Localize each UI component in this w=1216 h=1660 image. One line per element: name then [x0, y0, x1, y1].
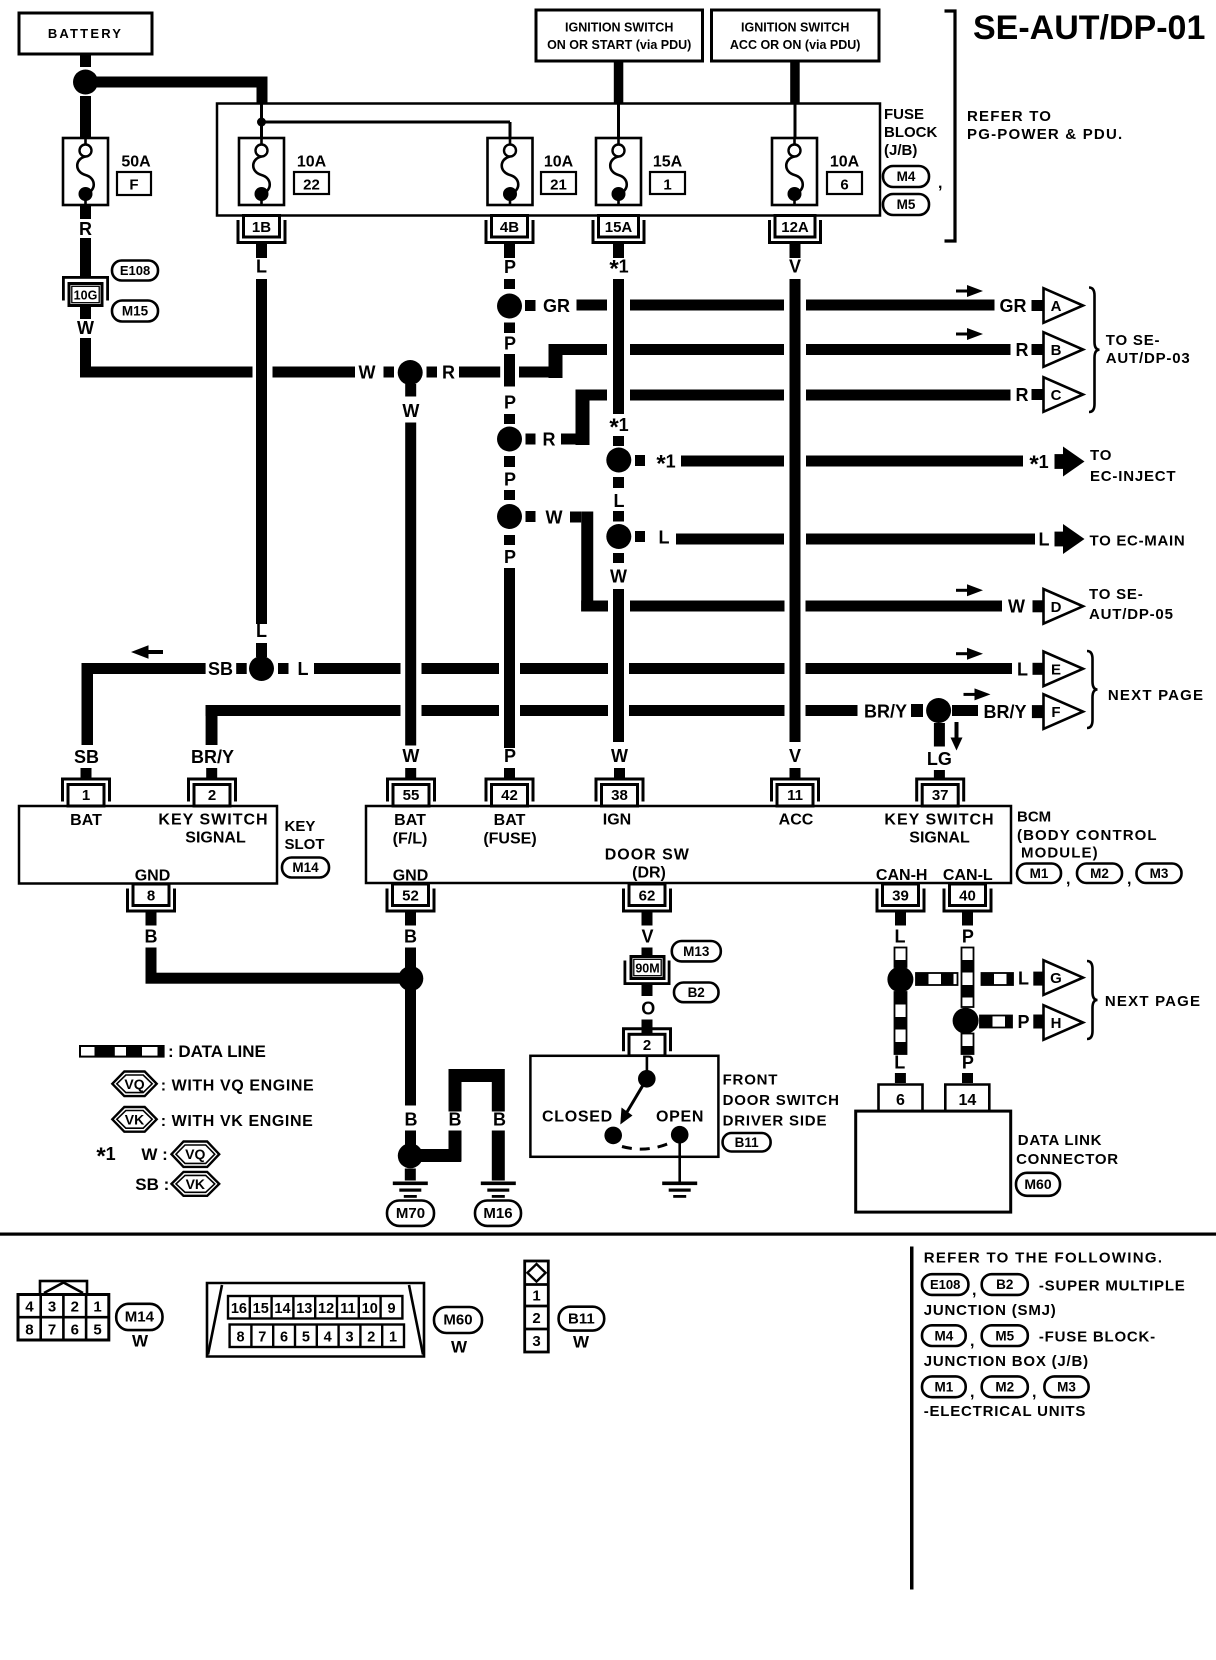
- svg-text:(BODY CONTROL: (BODY CONTROL: [1017, 827, 1158, 844]
- svg-text:GR: GR: [543, 296, 570, 316]
- svg-text:A: A: [1051, 298, 1062, 315]
- svg-text:10: 10: [362, 1301, 378, 1317]
- svg-text:VK: VK: [125, 1111, 144, 1127]
- junction dot W/R: [398, 360, 423, 385]
- legend data line sample: [80, 1046, 164, 1057]
- wire V from 12A: [790, 243, 801, 259]
- svg-text:P: P: [504, 470, 516, 490]
- svg-text:B: B: [404, 927, 417, 947]
- ignition switch ON/START box: [536, 10, 703, 61]
- svg-text:M1: M1: [935, 1380, 954, 1395]
- arrow row E right: [956, 648, 983, 660]
- wire fuse F to 10G, R: [80, 205, 91, 220]
- svg-text:10A: 10A: [544, 154, 574, 171]
- svg-text:IGNITION SWITCH: IGNITION SWITCH: [565, 21, 673, 35]
- svg-text:M4: M4: [897, 169, 916, 184]
- svg-text:W: W: [132, 1332, 149, 1351]
- svg-text:11: 11: [787, 787, 803, 804]
- brace to SE-AUT/DP-03: [1089, 288, 1100, 413]
- svg-text:FUSE: FUSE: [884, 106, 924, 123]
- svg-text:13: 13: [296, 1301, 312, 1317]
- svg-text:REFER TO: REFER TO: [967, 108, 1052, 125]
- svg-text:SE-AUT/DP-01: SE-AUT/DP-01: [973, 9, 1205, 47]
- svg-text:P: P: [1017, 1012, 1029, 1032]
- wire R to row B corner: [459, 367, 500, 378]
- connector pin 1: [63, 779, 110, 806]
- svg-text:CAN-H: CAN-H: [876, 867, 928, 884]
- svg-text:DOOR SWITCH: DOOR SWITCH: [723, 1092, 840, 1109]
- connector pin 42: [486, 779, 533, 806]
- svg-text:: WITH VQ ENGINE: : WITH VQ ENGINE: [161, 1078, 315, 1095]
- svg-text:IGNITION SWITCH: IGNITION SWITCH: [741, 21, 849, 35]
- svg-text:REFER TO THE FOLLOWING.: REFER TO THE FOLLOWING.: [924, 1250, 1164, 1267]
- svg-text:KEY SWITCH: KEY SWITCH: [158, 812, 268, 829]
- svg-text:W: W: [402, 401, 419, 421]
- svg-text:P: P: [962, 1053, 974, 1073]
- svg-text:OPEN: OPEN: [656, 1109, 704, 1126]
- svg-text:,: ,: [1127, 871, 1131, 888]
- svg-text:V: V: [789, 746, 801, 766]
- wire B loop to M16: [418, 1149, 461, 1162]
- svg-text:R: R: [79, 219, 92, 239]
- svg-text:CONNECTOR: CONNECTOR: [1016, 1151, 1119, 1168]
- arrow row A: [956, 285, 983, 297]
- connector id M2 note: [982, 1376, 1028, 1397]
- svg-text:M13: M13: [683, 944, 710, 959]
- svg-text:P: P: [962, 927, 974, 947]
- connector id M2: [1077, 864, 1122, 884]
- data line CAN-H lower: [895, 992, 907, 1054]
- data line CAN-L lower: [962, 1034, 974, 1055]
- svg-text:SB: SB: [208, 659, 233, 679]
- svg-text:BAT: BAT: [494, 812, 526, 829]
- svg-text:5: 5: [302, 1330, 310, 1346]
- row EC-MAIN wire: [635, 531, 645, 542]
- svg-text:LG: LG: [927, 749, 952, 769]
- svg-text:4: 4: [324, 1330, 332, 1346]
- data link connector box: [856, 1111, 1011, 1212]
- fuse F 50A: [63, 138, 108, 205]
- wire open contact to ground: [678, 1141, 681, 1182]
- svg-text:F: F: [1051, 704, 1060, 721]
- connector pin 2 door switch: [624, 1029, 671, 1056]
- svg-text:55: 55: [403, 787, 420, 804]
- separator line: [0, 1233, 1216, 1236]
- connector id B2 note: [982, 1274, 1028, 1295]
- svg-text:M3: M3: [1150, 866, 1169, 881]
- svg-text:D: D: [1051, 599, 1062, 616]
- svg-text:B: B: [449, 1110, 462, 1130]
- arrow down LG: [951, 722, 963, 751]
- data line row G: [916, 973, 958, 985]
- connector 1B: [238, 216, 285, 243]
- arrow row D: [956, 584, 983, 596]
- svg-text:-ELECTRICAL UNITS: -ELECTRICAL UNITS: [924, 1403, 1086, 1420]
- svg-text:M3: M3: [1057, 1380, 1076, 1395]
- connector id E108 note: [922, 1274, 968, 1295]
- connector id M4 note: [922, 1325, 966, 1346]
- svg-text:DATA LINK: DATA LINK: [1018, 1132, 1102, 1149]
- ground M16: [481, 1182, 516, 1198]
- svg-text:37: 37: [932, 787, 949, 804]
- svg-text:W :: W :: [141, 1145, 167, 1164]
- connector pin 52 GND: [387, 884, 434, 911]
- arrow to EC-INJECT: [1055, 454, 1069, 469]
- offpage triangle G: [1044, 960, 1084, 995]
- svg-text:8: 8: [25, 1322, 33, 1339]
- svg-text:3: 3: [532, 1333, 540, 1350]
- junction dot BR/Y: [926, 698, 951, 723]
- battery: [19, 13, 152, 54]
- svg-text:PG-POWER & PDU.: PG-POWER & PDU.: [967, 126, 1123, 143]
- svg-text:3: 3: [48, 1299, 56, 1316]
- svg-text:4: 4: [25, 1299, 34, 1316]
- svg-text:10G: 10G: [74, 289, 98, 303]
- svg-text:R: R: [1016, 385, 1029, 405]
- junction dot B ground bus: [398, 966, 423, 991]
- offpage triangle B: [1044, 332, 1084, 367]
- connector id M15: [112, 301, 158, 322]
- svg-text:,: ,: [970, 1333, 974, 1350]
- wire W junction to BCM pin 55: [405, 384, 416, 397]
- wire P from 4B: [504, 243, 515, 259]
- door switch closed contact: [604, 1127, 622, 1145]
- svg-text:M2: M2: [1090, 866, 1109, 881]
- svg-text:8: 8: [236, 1330, 244, 1346]
- svg-text:6: 6: [840, 177, 848, 194]
- svg-text:BAT: BAT: [394, 812, 426, 829]
- svg-text:1: 1: [663, 177, 671, 194]
- svg-text:B: B: [145, 927, 158, 947]
- connector id M70: [387, 1201, 434, 1226]
- svg-text:L: L: [256, 257, 267, 277]
- connector 14 DLC: [945, 1085, 989, 1112]
- svg-text:L: L: [894, 1053, 905, 1073]
- connector id M60 bottom: [434, 1307, 482, 1333]
- BCM box: [366, 806, 1011, 883]
- svg-text:M15: M15: [122, 304, 149, 319]
- svg-text:B: B: [405, 1110, 418, 1130]
- connector id M1: [1017, 864, 1061, 884]
- svg-text:SB: SB: [74, 747, 99, 767]
- svg-text:B2: B2: [688, 985, 705, 1000]
- svg-text:SIGNAL: SIGNAL: [185, 830, 246, 847]
- junction dot P row D: [497, 504, 522, 529]
- row D W wire: [526, 511, 536, 522]
- connector 15A: [593, 216, 644, 243]
- svg-text:6: 6: [71, 1322, 79, 1339]
- svg-text:O: O: [641, 999, 655, 1019]
- wire ignition ACC/ON to fuse block: [790, 61, 800, 104]
- fuse 1 15A: [596, 138, 641, 205]
- connector id M3 note: [1044, 1376, 1088, 1397]
- door switch common: [646, 1056, 649, 1074]
- svg-text:ACC OR ON (via PDU): ACC OR ON (via PDU): [730, 38, 861, 52]
- svg-text:2: 2: [532, 1310, 540, 1327]
- wire battery stub: [80, 54, 91, 67]
- svg-text:M2: M2: [995, 1380, 1014, 1395]
- svg-text:6: 6: [280, 1330, 288, 1346]
- svg-text:W: W: [573, 1333, 590, 1352]
- junction dot CAN-L: [953, 1008, 979, 1034]
- fuse 6 10A: [772, 138, 817, 205]
- svg-text:M70: M70: [396, 1205, 425, 1222]
- svg-text:M4: M4: [935, 1328, 954, 1343]
- svg-text:L: L: [256, 621, 267, 641]
- svg-text:DOOR SW: DOOR SW: [605, 847, 690, 864]
- svg-text:14: 14: [274, 1301, 290, 1317]
- svg-text:12A: 12A: [781, 219, 809, 236]
- svg-text:AUT/DP-03: AUT/DP-03: [1106, 350, 1191, 367]
- svg-text:,: ,: [1032, 1384, 1036, 1401]
- svg-text:6: 6: [896, 1092, 905, 1109]
- svg-text:VQ: VQ: [124, 1076, 144, 1092]
- svg-text:W: W: [1008, 597, 1025, 617]
- front door switch box: [530, 1056, 718, 1157]
- door switch open contact: [671, 1126, 689, 1144]
- svg-text:W: W: [77, 318, 94, 338]
- svg-text:*1: *1: [609, 256, 628, 283]
- ground door switch: [662, 1182, 697, 1198]
- svg-text:,: ,: [970, 1384, 974, 1401]
- svg-text:R: R: [543, 430, 556, 450]
- svg-text:W: W: [610, 567, 627, 587]
- svg-text:38: 38: [611, 787, 628, 804]
- svg-text:-FUSE BLOCK-: -FUSE BLOCK-: [1039, 1329, 1156, 1346]
- svg-text:W: W: [546, 508, 563, 528]
- connector id E108: [112, 261, 158, 281]
- wire V from BCM 62: [642, 911, 653, 926]
- legend VK engine: [112, 1107, 156, 1132]
- arrow row F: [964, 688, 991, 700]
- svg-text:50A: 50A: [121, 154, 151, 171]
- connector 6 DLC: [879, 1085, 923, 1112]
- svg-text:E108: E108: [930, 1277, 960, 1292]
- offpage triangle A: [1044, 288, 1084, 323]
- svg-text:P: P: [504, 334, 516, 354]
- svg-text:NEXT PAGE: NEXT PAGE: [1108, 687, 1204, 704]
- svg-text:15: 15: [253, 1301, 269, 1317]
- connector id M13: [672, 941, 721, 961]
- svg-text:W: W: [451, 1338, 468, 1357]
- svg-text:L: L: [895, 927, 906, 947]
- svg-text:SIGNAL: SIGNAL: [909, 830, 970, 847]
- svg-text:2: 2: [643, 1037, 651, 1054]
- connector pin 2: [189, 779, 236, 806]
- svg-text:(F/L): (F/L): [393, 831, 428, 848]
- arrow row E left: [131, 645, 163, 658]
- junction dot CAN-H: [887, 966, 913, 992]
- svg-text:NEXT PAGE: NEXT PAGE: [1105, 993, 1201, 1010]
- svg-text:*1: *1: [1029, 451, 1048, 478]
- svg-text:7: 7: [258, 1330, 266, 1346]
- svg-text:VQ: VQ: [185, 1146, 205, 1162]
- svg-text:MODULE): MODULE): [1021, 845, 1099, 862]
- svg-text:P: P: [504, 547, 516, 567]
- connector 90M SMJ: [624, 982, 671, 985]
- svg-text:10A: 10A: [297, 154, 327, 171]
- ground M70: [393, 1182, 428, 1198]
- connector pin 62 DOOR SW: [624, 884, 671, 911]
- svg-text:90M: 90M: [635, 962, 659, 976]
- arrow to EC-MAIN: [1055, 532, 1069, 547]
- svg-text:4B: 4B: [500, 219, 519, 236]
- wire SB to key slot pin 1: [82, 663, 94, 745]
- svg-text:M16: M16: [483, 1205, 512, 1222]
- svg-text:2: 2: [367, 1330, 375, 1346]
- svg-text:L: L: [1039, 530, 1050, 550]
- row B R wire: [563, 344, 608, 355]
- connector 4B: [486, 216, 533, 243]
- connector pin 38: [596, 779, 643, 806]
- svg-text:: DATA LINE: : DATA LINE: [168, 1042, 266, 1061]
- svg-text:H: H: [1051, 1015, 1062, 1032]
- svg-text:11: 11: [340, 1301, 355, 1317]
- svg-text:(J/B): (J/B): [884, 142, 917, 159]
- svg-text:TO: TO: [1090, 447, 1112, 464]
- junction dot SB/L: [249, 656, 274, 681]
- connector id M60: [1016, 1173, 1060, 1196]
- connector pin 55: [388, 779, 435, 806]
- svg-text:M1: M1: [1030, 866, 1049, 881]
- offpage triangle H: [1044, 1005, 1084, 1040]
- svg-text:L: L: [298, 659, 309, 679]
- svg-text:1: 1: [389, 1330, 397, 1346]
- connector pin 40 CAN-L: [944, 884, 991, 911]
- svg-text:JUNCTION (SMJ): JUNCTION (SMJ): [924, 1302, 1057, 1319]
- data line CAN-H upper: [895, 948, 907, 968]
- junction dot P row A: [497, 294, 522, 319]
- svg-text:BAT: BAT: [70, 812, 102, 829]
- svg-text:(DR): (DR): [632, 865, 666, 882]
- svg-text:8: 8: [147, 888, 155, 905]
- svg-text:B2: B2: [996, 1277, 1013, 1292]
- svg-text:M14: M14: [292, 860, 319, 875]
- connector view M60: [207, 1283, 424, 1357]
- svg-text:15A: 15A: [653, 154, 683, 171]
- key slot box: [19, 806, 277, 884]
- svg-text:62: 62: [639, 888, 656, 905]
- svg-text:*1: *1: [96, 1143, 115, 1170]
- row F BR/Y wire: [206, 705, 218, 745]
- junction dot P row C: [497, 427, 522, 452]
- svg-text:SLOT: SLOT: [285, 836, 325, 853]
- svg-text:: WITH VK ENGINE: : WITH VK ENGINE: [161, 1113, 314, 1130]
- svg-text:SB :: SB :: [135, 1175, 169, 1194]
- svg-text:14: 14: [959, 1092, 977, 1109]
- svg-text:L: L: [659, 528, 670, 548]
- connector id B2: [674, 983, 719, 1003]
- row EC-INJECT wire: [635, 455, 645, 466]
- svg-text:V: V: [789, 257, 801, 277]
- svg-text:M60: M60: [1024, 1176, 1051, 1192]
- connector view M14: [18, 1281, 109, 1340]
- svg-text:,: ,: [1066, 871, 1070, 888]
- connector pin 37: [917, 779, 964, 806]
- svg-text:CAN-L: CAN-L: [943, 867, 993, 884]
- junction dot *1 EC-INJECT: [606, 448, 631, 473]
- wire LG to BCM pin 37: [934, 723, 945, 747]
- offpage triangle F: [1044, 694, 1084, 729]
- connector pin 8 GND: [128, 884, 175, 911]
- svg-text:M5: M5: [995, 1328, 1014, 1343]
- svg-text:TO EC-MAIN: TO EC-MAIN: [1090, 533, 1186, 550]
- svg-text:16: 16: [231, 1301, 247, 1317]
- wire B from BCM GND: [405, 911, 416, 926]
- svg-text:L: L: [1018, 969, 1029, 989]
- svg-text:12: 12: [318, 1301, 334, 1317]
- svg-text:F: F: [129, 177, 138, 194]
- connector id M14 bottom: [116, 1304, 162, 1330]
- svg-text:22: 22: [303, 177, 320, 194]
- svg-text:TO SE-: TO SE-: [1106, 332, 1161, 349]
- svg-text:BLOCK: BLOCK: [884, 124, 937, 141]
- svg-text:FRONT: FRONT: [723, 1072, 779, 1089]
- svg-text:B: B: [1051, 342, 1062, 359]
- svg-text:52: 52: [402, 888, 419, 905]
- legend VQ engine: [112, 1072, 156, 1097]
- svg-text:BCM: BCM: [1017, 809, 1051, 826]
- brace next page EF: [1087, 651, 1098, 728]
- svg-text:B11: B11: [568, 1310, 595, 1327]
- svg-text:9: 9: [387, 1301, 395, 1317]
- fuse block J/B box: [217, 104, 880, 216]
- svg-text:42: 42: [501, 787, 518, 804]
- connector id M1 note: [922, 1376, 966, 1397]
- svg-text:M60: M60: [443, 1312, 472, 1329]
- svg-text:E108: E108: [120, 263, 150, 278]
- svg-text:BR/Y: BR/Y: [191, 747, 234, 767]
- door switch arm: [627, 1079, 647, 1112]
- svg-text:G: G: [1050, 970, 1062, 987]
- svg-text:ON OR START (via PDU): ON OR START (via PDU): [547, 38, 691, 52]
- svg-text:GND: GND: [393, 868, 429, 885]
- svg-text:M5: M5: [897, 197, 916, 212]
- svg-text:P: P: [504, 393, 516, 413]
- connector id B11: [723, 1133, 771, 1152]
- svg-text:2: 2: [71, 1299, 79, 1316]
- svg-text:L: L: [1017, 660, 1028, 680]
- divider line refer column: [910, 1247, 914, 1590]
- row E L wire: [82, 663, 206, 674]
- svg-text:BR/Y: BR/Y: [864, 702, 907, 722]
- connector id M3: [1137, 864, 1182, 884]
- svg-text:(FUSE): (FUSE): [483, 831, 536, 848]
- wire *1 from 15A: [613, 243, 624, 259]
- bracket refer: [945, 11, 956, 241]
- svg-text:E: E: [1051, 661, 1061, 678]
- connector id M5 note: [982, 1325, 1028, 1346]
- junction dot battery feed: [73, 70, 98, 95]
- wire P CAN-L: [962, 910, 973, 926]
- connector id M5: [883, 194, 929, 215]
- svg-text:,: ,: [972, 1282, 976, 1299]
- svg-text:1: 1: [82, 787, 90, 804]
- connector 10G SMJ: [62, 276, 109, 279]
- row C R wire: [526, 434, 536, 445]
- svg-text:7: 7: [48, 1322, 56, 1339]
- svg-text:M14: M14: [125, 1309, 155, 1326]
- svg-text:1: 1: [532, 1288, 540, 1305]
- svg-text:V: V: [641, 927, 653, 947]
- data line CAN-L upper: [962, 948, 974, 1008]
- door switch dashed arc: [622, 1142, 672, 1149]
- svg-text:DRIVER SIDE: DRIVER SIDE: [723, 1113, 828, 1130]
- svg-text:EC-INJECT: EC-INJECT: [1090, 468, 1176, 485]
- svg-text:W: W: [402, 746, 419, 766]
- svg-text:-SUPER MULTIPLE: -SUPER MULTIPLE: [1039, 1278, 1186, 1295]
- svg-text:GR: GR: [1000, 296, 1027, 316]
